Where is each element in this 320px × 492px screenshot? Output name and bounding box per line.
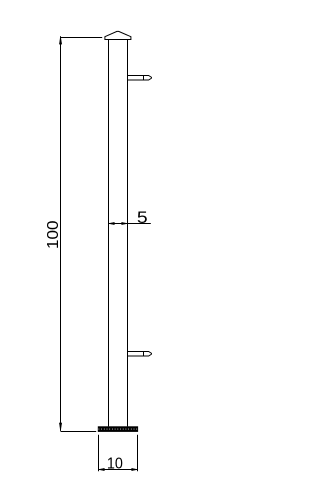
svg-text:100: 100 <box>45 220 62 249</box>
svg-text:10: 10 <box>107 455 123 472</box>
svg-text:5: 5 <box>137 209 148 227</box>
